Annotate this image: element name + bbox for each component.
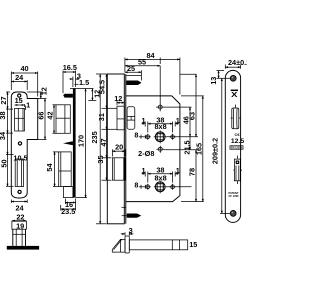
svg-text:38: 38 [0,111,7,119]
svg-text:10.5: 10.5 [13,153,27,162]
svg-text:12: 12 [40,87,49,95]
svg-text:20: 20 [115,142,123,151]
svg-text:3: 3 [129,226,133,235]
svg-text:2-Ø8: 2-Ø8 [138,149,154,158]
svg-text:170: 170 [77,135,86,147]
svg-text:8: 8 [134,131,138,140]
svg-text:84: 84 [146,51,155,60]
svg-text:21.5: 21.5 [182,140,191,154]
svg-text:16.5: 16.5 [63,63,77,72]
svg-text:C€: C€ [234,132,240,137]
svg-text:15: 15 [189,240,197,249]
svg-text:8x8: 8x8 [155,122,167,131]
svg-text:66: 66 [37,112,46,120]
svg-text:78: 78 [188,168,197,176]
svg-text:1: 1 [141,166,145,175]
svg-text:15: 15 [15,96,23,105]
svg-text:235: 235 [90,131,99,143]
svg-text:1: 1 [26,101,30,110]
svg-text:54: 54 [45,163,54,172]
svg-text:42: 42 [46,111,55,119]
svg-text:8x8: 8x8 [155,174,167,183]
svg-text:54.5: 54.5 [98,80,107,94]
svg-text:55: 55 [138,58,146,67]
svg-text:1.5: 1.5 [79,78,89,87]
svg-text:34: 34 [0,131,7,140]
svg-text:50: 50 [0,159,9,167]
svg-text:1: 1 [176,166,180,175]
svg-text:CF 1280: CF 1280 [229,194,240,198]
svg-text:209±0.2: 209±0.2 [211,138,220,164]
svg-text:EN 12209: EN 12209 [231,147,243,150]
svg-text:X: X [231,90,238,99]
svg-text:24: 24 [15,203,24,212]
svg-text:23.5: 23.5 [61,207,75,216]
svg-text:25: 25 [127,64,135,73]
svg-text:1: 1 [176,116,180,125]
svg-text:27: 27 [0,96,8,104]
svg-text:12.5: 12.5 [231,138,244,145]
svg-text:24±0.2: 24±0.2 [228,58,247,67]
svg-text:1: 1 [141,116,145,125]
svg-text:8: 8 [134,181,138,190]
svg-text:22: 22 [16,212,24,221]
svg-text:13: 13 [209,77,218,85]
svg-text:165: 165 [195,143,204,155]
svg-text:31: 31 [97,113,106,121]
svg-text:12: 12 [114,94,122,103]
svg-text:24: 24 [15,73,24,82]
svg-text:63: 63 [187,112,196,120]
svg-text:19: 19 [16,221,24,230]
